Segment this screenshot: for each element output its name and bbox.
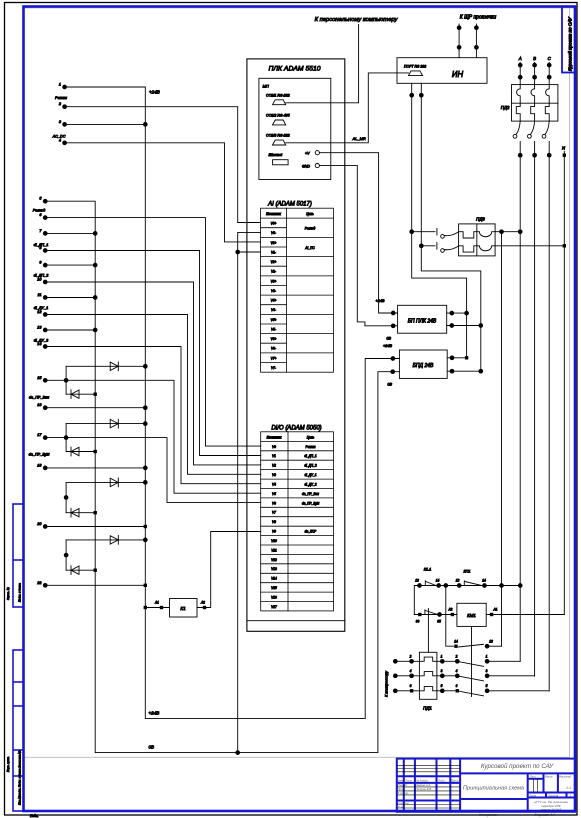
wire COM3 to inverter port (286, 73, 409, 143)
svg-text:1: 1 (59, 83, 61, 87)
svg-text:di_ДУ_2: di_ДУ_2 (304, 482, 316, 486)
wire K1 coil A2 to DI V9 (197, 532, 261, 608)
svg-text:V2: V2 (272, 464, 276, 468)
junction BP PLC input 2 (479, 324, 483, 328)
contact KP1 terminal 2 (483, 584, 487, 588)
svg-text:14: 14 (454, 640, 458, 644)
svg-text:V1-: V1- (271, 250, 276, 254)
svg-text:КМ1: КМ1 (467, 613, 476, 618)
PD1 heater row 2 (419, 672, 437, 676)
svg-text:Расход: Расход (33, 209, 46, 213)
junction VD5 bus (143, 481, 147, 485)
junction terminal 16 (143, 406, 147, 410)
svg-text:Масштаб: Масштаб (559, 775, 572, 779)
svg-text:3: 3 (441, 669, 443, 673)
svg-text:МП: МП (263, 84, 269, 89)
title block left column verticals (403, 759, 405, 812)
svg-text:13: 13 (456, 579, 460, 583)
wire terminal 9 to 0V bus (45, 264, 95, 266)
svg-text:V3+: V3+ (271, 279, 277, 283)
PD3 row1 fixed contact tick (436, 228, 438, 235)
junction group 3 signal (64, 496, 68, 500)
junction BPD input square (465, 356, 468, 359)
svg-text:V0: V0 (272, 445, 276, 449)
inverter supply wire 2 (475, 24, 477, 58)
terminal 11 (43, 296, 47, 300)
svg-text:14: 14 (37, 342, 41, 346)
junction PD3 out N square (563, 244, 566, 247)
aux contact right wire (487, 645, 501, 647)
PD2 phase A thermal element (516, 103, 520, 121)
PD3 row2 input wire (421, 245, 435, 247)
DI circuit names (302, 445, 319, 534)
contact KP1 terminal (457, 584, 461, 588)
svg-text:ПОРТ RS 232: ПОРТ RS 232 (404, 65, 426, 69)
svg-text:Режим: Режим (306, 445, 317, 449)
PD1 heater row 1 (419, 657, 437, 661)
wire BPD AC input 1 (447, 357, 466, 359)
svg-text:V6-: V6- (271, 347, 276, 351)
PD3 row1 blade (444, 232, 458, 236)
diode VD8 (71, 566, 79, 575)
svg-text:V5-: V5- (271, 327, 276, 331)
junction terminal 7 (93, 232, 97, 236)
main row 2 middle wire (437, 675, 457, 677)
phase C vertical to contact row 3 (548, 142, 550, 692)
PD2 phase A switch circle (513, 134, 517, 138)
diode VD2 (71, 390, 79, 399)
svg-text:V3-: V3- (271, 289, 276, 293)
terminal dot (450, 311, 454, 315)
main row 2 left wire (395, 675, 419, 677)
svg-text:AL_MR: AL_MR (351, 136, 365, 141)
svg-text:Т.контр.: Т.контр. (398, 791, 410, 795)
svg-text:ПД3: ПД3 (476, 217, 485, 222)
svg-text:Курсовой проект по САУ: Курсовой проект по САУ (567, 16, 573, 71)
svg-text:А1: А1 (493, 608, 498, 612)
junction PD3 row1 (410, 230, 414, 234)
svg-text:5: 5 (441, 684, 443, 688)
+V terminal circle (315, 151, 319, 155)
PD3 row2 blade (444, 246, 458, 250)
svg-text:6: 6 (456, 684, 458, 688)
PD3 row1 switch circle (441, 235, 445, 239)
svg-text:Подп. и дата: Подп. и дата (17, 583, 21, 602)
svg-text:А1: А1 (154, 601, 159, 605)
svg-text:Подп.: Подп. (438, 779, 446, 783)
svg-text:22: 22 (36, 581, 42, 585)
aux contact KM1 blade (459, 644, 484, 647)
svg-text:2: 2 (409, 654, 412, 658)
svg-text:COM2 RS-485: COM2 RS-485 (266, 114, 290, 118)
junction terminal 9 (93, 263, 97, 267)
diode group 1 vertical link (65, 366, 67, 394)
PD1 heater row 3 (419, 687, 437, 691)
svg-text:V13: V13 (271, 567, 277, 571)
Ethernet connector (273, 160, 289, 165)
svg-text:14: 14 (482, 579, 486, 583)
AI table terminal names (271, 222, 277, 371)
PD2 phase C thermal element (545, 103, 549, 121)
svg-text:+24В: +24В (376, 299, 385, 303)
diode group 2 vertical link (65, 424, 67, 452)
svg-text:4: 4 (410, 669, 412, 673)
junction VD1 bus (143, 364, 147, 368)
junction VD4 0V bus (94, 450, 97, 453)
contact KP1 fixed tick (463, 581, 465, 586)
svg-text:Принципиальная схема: Принципиальная схема (463, 786, 524, 792)
wire terminal 20 to +24V bus (45, 526, 145, 528)
diode group 1 lower wire (66, 393, 95, 395)
GND terminal circle (315, 164, 319, 168)
diode group 4 upper wire (66, 539, 145, 541)
terminal A1 square (160, 606, 163, 609)
terminal 7 (43, 232, 47, 236)
svg-text:V3: V3 (272, 473, 276, 477)
wire terminal 11 to 0V bus (45, 297, 95, 299)
terminal 15 (43, 378, 47, 382)
junction group 1 signal (64, 378, 68, 382)
svg-text:Формат А4: Формат А4 (534, 813, 555, 817)
junction VD8 0V bus (94, 569, 97, 572)
svg-text:К1.1: К1.1 (424, 568, 432, 572)
svg-text:0В: 0В (149, 745, 155, 750)
PD3 row1 output wire (495, 231, 520, 233)
junction group 2 signal (64, 436, 68, 440)
junction VD3 bus (143, 422, 147, 426)
svg-text:+24В: +24В (149, 90, 160, 95)
wire COM1 to personal computer (286, 25, 359, 103)
junction aux branch left (444, 584, 448, 588)
svg-text:V17: V17 (271, 605, 277, 609)
terminal dot BPD 0V (391, 370, 395, 374)
svg-text:Цепь: Цепь (307, 436, 315, 440)
svg-text:Инв.№подл. Подп. и дата Взам: Инв.№подл. Подп. и дата Взам.инв.№ (17, 750, 21, 805)
title block right part dividers (460, 772, 575, 774)
junction group 4 signal (64, 553, 68, 557)
phase A entry wire (519, 63, 521, 85)
svg-text:Режим: Режим (55, 96, 67, 100)
PD3 row2 switch circle (441, 249, 445, 253)
svg-text:Клеммник: Клеммник (267, 436, 282, 440)
svg-text:Ethernet: Ethernet (269, 153, 284, 157)
PD2 phase C magnetic element (546, 85, 550, 104)
svg-text:6: 6 (410, 684, 412, 688)
title block thin black rows (397, 765, 538, 808)
svg-text:ИН: ИН (452, 70, 464, 79)
svg-text:+V: +V (305, 152, 310, 156)
terminal 18 (43, 466, 47, 470)
terminal 4 (63, 141, 67, 145)
svg-text:11: 11 (38, 293, 42, 297)
junction dot (419, 93, 423, 97)
svg-text:V15: V15 (271, 586, 277, 590)
wire terminal 8 to DI V1 (45, 251, 261, 456)
contactor coil KM1 box (457, 603, 486, 626)
diode group 2 lower wire (66, 451, 95, 453)
svg-text:БПД 24В: БПД 24В (413, 363, 434, 369)
diode group 3 vertical link (65, 482, 67, 512)
wire BPD AC input 2 (447, 370, 481, 372)
left margin revision boxes (13, 504, 24, 811)
svg-text:V4: V4 (272, 482, 276, 486)
breaker PD3 box (459, 224, 496, 256)
svg-text:К1: К1 (180, 606, 186, 611)
svg-text:V11: V11 (271, 548, 277, 552)
junction GND BP PLC (391, 324, 395, 328)
contact K1.1 terminal 14 (437, 584, 441, 588)
terminal dot BPD +24 (391, 357, 395, 361)
svg-text:Расход: Расход (305, 227, 316, 231)
compressor terminal 2 (393, 674, 397, 678)
junction PD3 out phase A (518, 230, 522, 234)
svg-text:3: 3 (486, 669, 488, 673)
junction dot (410, 93, 414, 97)
svg-text:4: 4 (456, 669, 458, 673)
phase A vertical to contact row 1 (519, 142, 521, 662)
wire terminal 12 to DI V3 (45, 315, 261, 475)
terminal 10 (43, 280, 47, 284)
svg-text:1: 1 (486, 654, 488, 658)
PLC rack outer box (247, 59, 345, 631)
diode VD7 (110, 536, 118, 545)
PD2 center divider (512, 102, 558, 104)
svg-text:Курсовой проект по САУ: Курсовой проект по САУ (481, 763, 554, 770)
junction terminal 20 (144, 525, 147, 528)
terminal 95 dot (438, 613, 442, 617)
svg-text:V12: V12 (271, 558, 277, 562)
wire terminal 17 to DI V6 (45, 438, 261, 503)
svg-text:do_ПР_light: do_ПР_light (302, 501, 319, 505)
wire terminal 13 to 0V bus (45, 329, 95, 331)
title block texts (398, 763, 572, 817)
compressor terminal 3 (393, 689, 397, 693)
junction terminal 11 (93, 296, 97, 300)
svg-text:Дата: Дата (450, 779, 459, 783)
svg-text:V1+: V1+ (271, 241, 277, 245)
contact K1.1 blade (426, 582, 436, 586)
svg-text:V7-: V7- (271, 366, 276, 370)
PD3 row2 magnetic element (477, 246, 495, 251)
terminal dot (450, 369, 454, 373)
terminal dot (450, 356, 454, 360)
wire terminal 4 to AI V1+ (65, 143, 261, 242)
svg-text:Подп.: Подп. (30, 814, 39, 818)
holding circuit row (414, 586, 520, 615)
main row 3 left wire (395, 690, 419, 692)
svg-text:AI (ADAM 5017): AI (ADAM 5017) (267, 202, 312, 208)
phase C entry wire (548, 63, 550, 85)
svg-text:ПД1: ПД1 (423, 706, 432, 711)
main row 1 left wire (395, 660, 419, 662)
wire terminal 14 to DI V4 (45, 347, 261, 484)
svg-text:V6+: V6+ (271, 337, 277, 341)
COM1 connector (273, 100, 286, 105)
svg-text:AI_ПС: AI_ПС (304, 246, 315, 250)
svg-text:1: 1 (441, 654, 443, 658)
diode group 1 upper wire (66, 365, 145, 367)
svg-text:Лист: Лист (528, 794, 537, 798)
KM1 mechanical linkage (471, 626, 473, 696)
title block major horizontals left (397, 775, 460, 777)
svg-text:V5+: V5+ (271, 318, 277, 322)
wire K1 coil A1 to +24V bus (145, 607, 169, 609)
svg-text:Листов: Листов (547, 794, 559, 798)
top-right vertical stamp box (562, 7, 575, 73)
wire terminal 15 to DI V5 (45, 380, 261, 493)
PSU BPD box (399, 350, 447, 378)
terminal dot (475, 26, 479, 30)
terminal dot (457, 45, 461, 49)
wire terminal 22 to +24V bus (45, 584, 145, 586)
terminal 8 (43, 249, 47, 253)
junction PD3 row2 (419, 244, 423, 248)
wire terminal 6 to DI V0 (45, 218, 261, 447)
thermal contact fixed tick (424, 610, 426, 615)
svg-text:V10: V10 (271, 539, 277, 543)
svg-text:КП1: КП1 (463, 570, 470, 574)
aux contact KM1 terminal square (454, 645, 457, 648)
main row 3 middle wire (437, 690, 457, 692)
+24V bus with bottom rail to BPD (145, 87, 399, 719)
svg-text:14: 14 (436, 579, 440, 583)
diode VD3 (110, 419, 118, 428)
wire PLC +V to BP PLC (319, 153, 397, 313)
svg-text:2: 2 (455, 654, 458, 658)
junction terminal 3 bus (143, 123, 147, 127)
inverter IN box (397, 58, 487, 84)
svg-text:DI/O (ADAM 5050): DI/O (ADAM 5050) (271, 426, 321, 432)
svg-text:Утв.: Утв. (398, 805, 405, 809)
terminal 17 (43, 436, 47, 440)
svg-text:К ЩР протечки: К ЩР протечки (460, 15, 497, 21)
svg-text:Копировал: Копировал (479, 813, 499, 817)
terminal dot (457, 26, 461, 30)
terminal 20 (43, 525, 47, 529)
junction PD3 out to control (500, 230, 504, 234)
control feed wire phase A to holding circuit (501, 232, 503, 647)
thermal contact 95-96 row with coil line (414, 614, 457, 616)
coil KM1 to N wire (486, 614, 564, 616)
svg-text:А2: А2 (448, 608, 453, 612)
svg-text:5: 5 (486, 684, 488, 688)
junction 0V rail drop (236, 751, 240, 755)
svg-text:0В: 0В (387, 383, 392, 387)
diode group 4 vertical link (65, 540, 67, 570)
main row 2 right terminal (485, 674, 489, 678)
terminal 9 (43, 263, 47, 267)
svg-text:Масса: Масса (545, 775, 553, 779)
neutral N vertical to coil return (563, 152, 565, 615)
svg-text:V14: V14 (271, 577, 277, 581)
svg-text:Петров В.В.: Петров В.В. (416, 787, 433, 791)
svg-text:группа 14-ЭлЭ: группа 14-ЭлЭ (541, 808, 562, 812)
svg-text:COM1 RS-232: COM1 RS-232 (266, 94, 290, 98)
DI table terminal names (271, 445, 277, 609)
svg-text:V16: V16 (271, 596, 277, 600)
svg-text:Лит.: Лит. (529, 775, 536, 779)
PSU BP PLC box (398, 305, 447, 333)
wire BP PLC AC input 2 (447, 325, 481, 327)
svg-text:К персональному компьютеру: К персональному компьютеру (315, 17, 399, 23)
PD2 phase A switch blade (516, 121, 520, 134)
inverter feed wire 1 to PD3 and PSU AC (412, 83, 467, 358)
svg-text:А2: А2 (200, 601, 205, 605)
PD2 phase B magnetic element (531, 85, 535, 104)
KM1 main contact row 1 blade (460, 662, 484, 667)
svg-text:do_ПР_light: do_ПР_light (29, 453, 51, 457)
junction BPD input 2 (479, 369, 483, 373)
wire terminal 16 to +24V bus (45, 407, 145, 409)
left margin rotated small texts (6, 583, 21, 805)
junction terminal 22 (144, 584, 147, 587)
svg-text:Цепь: Цепь (306, 212, 314, 216)
terminal 14 (43, 345, 47, 349)
main row 1 middle wire (437, 660, 457, 662)
svg-text:GND: GND (302, 164, 310, 168)
main row 2 wire to phase B (487, 675, 534, 677)
svg-text:В: В (533, 56, 536, 61)
diode VD5 (110, 478, 118, 487)
diode group 4 lower wire (66, 569, 95, 571)
diode group 3 lower wire (66, 512, 95, 514)
svg-text:13: 13 (489, 640, 493, 644)
main row 3 wire to phase C (487, 690, 549, 692)
AI V1- stub (238, 251, 261, 253)
svg-text:V0+: V0+ (271, 222, 277, 226)
svg-text:Справ. №: Справ. № (6, 587, 10, 600)
diode group 3 upper wire (66, 481, 145, 483)
svg-text:+24В: +24В (383, 344, 392, 348)
junction +V BP PLC (391, 311, 395, 315)
KM1 main contact row 2 blade (460, 676, 484, 681)
terminal 16 (43, 406, 47, 410)
phase B vertical to contact row 2 (534, 142, 536, 677)
terminal 5 (43, 199, 47, 203)
PD2 phase B switch circle (528, 134, 532, 138)
PD3 row1 magnetic element (477, 232, 495, 237)
svg-text:COM3 RS-232: COM3 RS-232 (266, 134, 290, 138)
svg-text:V4+: V4+ (271, 299, 277, 303)
svg-text:do_ПР_Вкл: do_ПР_Вкл (302, 492, 319, 496)
terminal dot (475, 45, 479, 49)
junction terminal 13 (93, 328, 97, 332)
svg-text:96: 96 (416, 620, 420, 624)
diode VD1 (110, 362, 118, 371)
junction phase A holding (518, 584, 522, 588)
svg-text:V7+: V7+ (271, 356, 277, 360)
relay K1 box (170, 599, 198, 618)
svg-text:di_ДП_2: di_ДП_2 (304, 464, 317, 468)
svg-text:Изм.: Изм. (398, 779, 404, 783)
PD3 center divider (476, 224, 478, 256)
inverter port connector (409, 71, 423, 76)
svg-text:V6: V6 (272, 501, 276, 505)
COM2 connector (273, 120, 286, 125)
phase B entry wire (534, 63, 536, 85)
0V bus with bottom rail to BPD (45, 201, 399, 752)
wire BP PLC AC input 1 (447, 312, 467, 314)
terminal 12 (43, 313, 47, 317)
svg-text:1:1: 1:1 (566, 786, 571, 790)
terminal 22 (43, 583, 47, 587)
compressor terminal 1 (393, 659, 397, 663)
svg-text:do_КПР: do_КПР (305, 530, 318, 534)
svg-text:Лист: Лист (404, 779, 413, 783)
svg-text:V9: V9 (272, 530, 276, 534)
svg-text:4: 4 (59, 138, 61, 142)
svg-text:V8: V8 (272, 520, 276, 524)
